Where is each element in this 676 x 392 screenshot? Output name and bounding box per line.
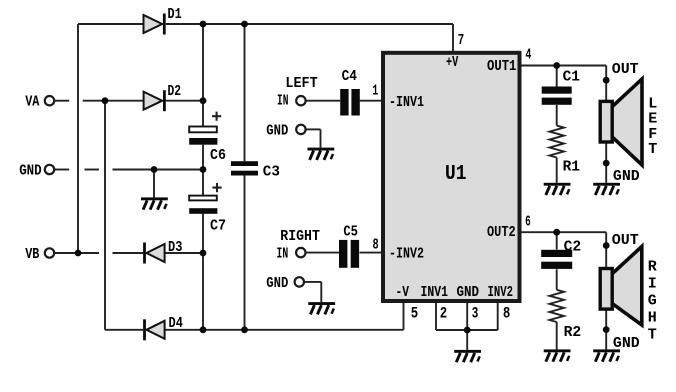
svg-text:R2: R2 <box>564 324 582 341</box>
svg-text:-INV2: -INV2 <box>389 245 424 262</box>
svg-text:LEFT: LEFT <box>285 75 317 92</box>
svg-text:2: 2 <box>440 305 447 323</box>
svg-text:D1: D1 <box>168 6 182 23</box>
svg-text:GND: GND <box>613 168 640 185</box>
svg-text:7: 7 <box>458 32 464 49</box>
svg-text:GND: GND <box>266 122 288 139</box>
svg-text:D3: D3 <box>168 239 182 256</box>
svg-text:3: 3 <box>472 305 479 323</box>
svg-text:U1: U1 <box>445 162 466 186</box>
svg-text:6: 6 <box>525 213 531 230</box>
svg-text:5: 5 <box>411 305 418 323</box>
svg-text:GND: GND <box>266 275 288 292</box>
svg-text:GND: GND <box>19 162 42 179</box>
svg-text:VA: VA <box>25 94 39 111</box>
svg-text:OUT: OUT <box>612 61 639 78</box>
svg-text:D2: D2 <box>168 83 182 100</box>
svg-text:-V: -V <box>396 284 410 301</box>
svg-text:D4: D4 <box>169 315 183 332</box>
svg-text:1: 1 <box>372 82 378 99</box>
svg-text:8: 8 <box>503 305 510 323</box>
svg-text:I: I <box>648 275 657 292</box>
svg-text:C2: C2 <box>564 238 582 255</box>
svg-text:IN: IN <box>277 245 289 262</box>
svg-text:OUT2: OUT2 <box>487 224 516 241</box>
svg-text:8: 8 <box>373 237 379 254</box>
svg-text:H: H <box>648 309 657 326</box>
svg-text:T: T <box>648 141 657 158</box>
svg-text:OUT: OUT <box>612 232 639 249</box>
svg-text:INV2: INV2 <box>488 284 514 301</box>
svg-text:GND: GND <box>613 335 640 352</box>
svg-text:OUT1: OUT1 <box>487 58 516 75</box>
svg-text:VB: VB <box>25 246 39 263</box>
svg-text:C7: C7 <box>210 218 226 235</box>
svg-text:C3: C3 <box>263 163 280 180</box>
svg-text:-INV1: -INV1 <box>389 94 424 111</box>
svg-text:GND: GND <box>457 284 480 301</box>
svg-text:4: 4 <box>525 47 531 64</box>
svg-text:C5: C5 <box>343 223 358 240</box>
svg-text:+V: +V <box>446 54 458 71</box>
svg-text:C6: C6 <box>210 147 226 164</box>
svg-text:G: G <box>648 292 657 309</box>
svg-text:T: T <box>648 326 657 343</box>
svg-text:RIGHT: RIGHT <box>280 228 320 245</box>
svg-text:R1: R1 <box>563 159 580 176</box>
svg-text:C1: C1 <box>563 68 580 85</box>
svg-text:R: R <box>648 258 657 275</box>
svg-text:C4: C4 <box>342 68 357 85</box>
svg-text:IN: IN <box>277 93 288 110</box>
svg-text:INV1: INV1 <box>421 284 449 301</box>
